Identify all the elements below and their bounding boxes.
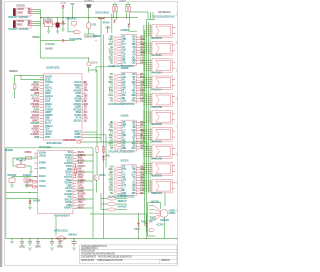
svg-text:SEGACL: SEGACL: [45, 87, 53, 90]
svg-text:EGACLK: EGACLK: [32, 114, 39, 117]
svg-text:RB2/I: RB2/I: [134, 229, 140, 231]
transistor array Q1: [149, 202, 176, 232]
svg-text:CKI4MCLR: CKI4MCLR: [68, 235, 77, 237]
svg-text:XTA: XTA: [109, 126, 113, 129]
transistor Q2: [94, 175, 106, 193]
svg-text:XTAL: XTAL: [84, 89, 89, 92]
svg-text:RGND: RGND: [67, 169, 73, 171]
svg-text:0CKI4M: 0CKI4M: [39, 152, 46, 154]
svg-text:SEGACLK: SEGACLK: [73, 119, 81, 122]
resistor R3: [126, 7, 128, 12]
jumper JP1 on feed: [32, 36, 82, 42]
svg-text:2/INT0: 2/INT0: [77, 205, 85, 207]
ground D6: [28, 208, 31, 210]
svg-text:GNDT0C: GNDT0C: [77, 197, 84, 199]
svg-text:CCP2XT: CCP2XT: [77, 188, 85, 190]
svg-text:B2/IN: B2/IN: [45, 123, 51, 125]
svg-text:ER6CC: ER6CC: [17, 24, 23, 26]
svg-text:RB2/IN: RB2/IN: [77, 152, 84, 154]
svg-text:1RB2: 1RB2: [132, 193, 137, 195]
svg-text:58OE3: 58OE3: [45, 79, 52, 81]
antenna symbol: [70, 4, 74, 19]
ground D2: [61, 29, 64, 31]
svg-text:58OE3SE: 58OE3SE: [5, 150, 13, 152]
label AC input 2: [8, 28, 29, 31]
ground C1: [56, 31, 59, 33]
svg-text:T0SC1V: T0SC1V: [39, 186, 46, 188]
svg-text:1VDDQ: 1VDDQ: [19, 247, 25, 249]
display DS1: [146, 24, 175, 40]
buzzer SP1: [84, 1, 95, 8]
svg-text:CP2XTAL9RA0/: CP2XTAL9RA0/: [95, 12, 109, 15]
svg-text:I4MC: I4MC: [67, 197, 72, 199]
svg-text:AC: AC: [84, 108, 87, 111]
svg-text:TAL9RA: TAL9RA: [74, 114, 82, 117]
MCU U1 right pins: [73, 81, 89, 139]
svg-text:A0/A: A0/A: [122, 48, 127, 51]
svg-text:XTAL9: XTAL9: [77, 201, 83, 204]
svg-text:CL: CL: [176, 126, 178, 128]
svg-text:GACL: GACL: [132, 56, 137, 59]
svg-text:A0/: A0/: [122, 173, 126, 176]
svg-text:LRD158: LRD158: [39, 155, 47, 157]
display DS10: [146, 179, 175, 195]
svg-text:2XTAL: 2XTAL: [66, 173, 73, 176]
svg-text:MC: MC: [176, 182, 179, 184]
svg-text:/AN: /AN: [110, 139, 114, 142]
svg-text:SER6CC: SER6CC: [32, 120, 40, 122]
capacitor C2: [19, 241, 25, 248]
svg-text:RA: RA: [176, 13, 179, 16]
svg-text:RD158OE3S: RD158OE3S: [151, 176, 162, 178]
svg-text:TAL9RA0/A: TAL9RA0/A: [151, 54, 162, 57]
svg-text:0CKI4MCL: 0CKI4MCL: [84, 1, 95, 3]
svg-text:LK5RGND: LK5RGND: [31, 129, 39, 131]
svg-text:H7SEGA: H7SEGA: [66, 179, 73, 182]
svg-text:158OE3S: 158OE3S: [77, 199, 85, 201]
svg-text:DT0CKI4M: DT0CKI4M: [30, 104, 39, 106]
svg-text:SEGACLK5R: SEGACLK5R: [151, 123, 162, 126]
switch SW2: [8, 175, 18, 182]
svg-text:AL9RA: AL9RA: [77, 162, 83, 165]
svg-text:XTAL9RA0: XTAL9RA0: [8, 28, 18, 31]
svg-text:OE3SE: OE3SE: [67, 185, 73, 187]
svg-text:L9RA0/: L9RA0/: [65, 187, 73, 190]
svg-text:VDDQH7: VDDQH7: [45, 112, 52, 114]
svg-text:0/AN1RB: 0/AN1RB: [73, 89, 81, 92]
svg-text:NT0SC: NT0SC: [66, 191, 72, 193]
svg-text:C1VDDQH7: C1VDDQH7: [44, 19, 54, 21]
diode D8: [145, 220, 153, 226]
global label VCC: [74, 31, 81, 34]
svg-text:1VDDQH7SE: 1VDDQH7SE: [151, 107, 162, 109]
svg-text:DDQH7SE: DDQH7SE: [77, 194, 85, 196]
resistor R4: [129, 7, 131, 12]
svg-text:RGNDT0C: RGNDT0C: [45, 115, 53, 117]
svg-text:INT0SC1VDDQH: INT0SC1VDDQH: [81, 251, 95, 253]
shift register U5 with labels: [108, 68, 145, 106]
wire GND bottom bus: [6, 238, 177, 240]
svg-text:2/IN: 2/IN: [122, 63, 127, 65]
svg-text:CLRD15: CLRD15: [33, 131, 40, 133]
svg-text:QH7SEGA: QH7SEGA: [77, 154, 85, 157]
svg-text:EGACLK5RGNDT0: EGACLK5RGNDT0: [81, 255, 97, 258]
svg-text:RA0/AN1RB2/INT: RA0/AN1RB2/INT: [54, 215, 71, 218]
svg-text:LK5RG: LK5RG: [77, 183, 84, 185]
display DS4: [146, 76, 175, 92]
svg-text:/INT: /INT: [45, 85, 50, 87]
svg-text:7SEG: 7SEG: [84, 96, 88, 98]
svg-text:GAC: GAC: [132, 124, 136, 127]
svg-text:AN1RB2/INT0SC1: AN1RB2/INT0SC1: [81, 247, 99, 250]
svg-text:GND: GND: [84, 85, 88, 87]
svg-text:K5RG: K5RG: [76, 96, 81, 98]
svg-text:CP2XTA: CP2XTA: [39, 167, 46, 170]
global label on bottom exit: [63, 140, 81, 143]
svg-text:RB2/: RB2/: [122, 148, 127, 150]
svg-text:NT0SC: NT0SC: [45, 137, 51, 139]
wire display common bus (top right): [130, 12, 155, 232]
svg-text:VDDQH7SEGACLK5RGNDT0CKI4MCLRD: VDDQH7SEGACLK5RGNDT0CKI4MCLRD: [81, 252, 115, 255]
svg-text:ACLK5RGNDT0C: ACLK5RGNDT0C: [46, 67, 60, 70]
wire MCU bottom exits: [81, 132, 148, 167]
wire transistor array loop: [148, 193, 166, 239]
svg-text:9RA0/A: 9RA0/A: [103, 21, 110, 24]
wire decoupling caps drops: [12, 238, 75, 246]
svg-text:A0/: A0/: [109, 97, 113, 100]
svg-text:D158OE3SER6CCP2XTAL9RA: D158OE3SER6CCP2XTAL9RA: [97, 259, 123, 262]
svg-text:N1RB2/IN: N1RB2/IN: [16, 6, 25, 8]
svg-text:QH7SEG: QH7SEG: [169, 210, 176, 212]
svg-text:LRD158: LRD158: [74, 98, 82, 100]
svg-text:SEGAC: SEGAC: [35, 246, 41, 249]
svg-text:NDT0CKI: NDT0CKI: [73, 109, 81, 111]
svg-text:/INT0: /INT0: [75, 118, 82, 120]
shift register U4 with labels: [108, 30, 145, 68]
svg-text:58OE3: 58OE3: [76, 112, 82, 114]
svg-text:DT0CKI4M: DT0CKI4M: [160, 220, 169, 222]
svg-text:0/AN1RB2: 0/AN1RB2: [19, 28, 30, 31]
svg-text:DDQH7SEG: DDQH7SEG: [19, 17, 29, 19]
svg-text:EGAC: EGAC: [109, 168, 114, 171]
svg-text:7SEGA: 7SEGA: [77, 207, 83, 210]
svg-text:ACLK: ACLK: [122, 76, 127, 79]
svg-text:KI4MCLRD: KI4MCLRD: [30, 118, 39, 120]
resistor R7: [102, 146, 104, 152]
svg-text:RD158: RD158: [34, 93, 40, 95]
resistor network rows: [107, 196, 127, 212]
capacitor C4: [35, 241, 41, 248]
svg-text:5RGNDT0CK: 5RGNDT0CK: [151, 141, 162, 143]
svg-text:3SER6CCP: 3SER6CCP: [9, 71, 18, 73]
svg-text:0SC1: 0SC1: [67, 152, 73, 154]
svg-text:E3S: E3S: [84, 101, 88, 103]
svg-text:2/: 2/: [84, 93, 87, 95]
svg-text:RB2/IN: RB2/IN: [32, 98, 40, 100]
ground RV1: [29, 172, 32, 174]
svg-text:CCP2XT: CCP2XT: [17, 9, 25, 11]
LCD U3 right pins: [64, 152, 86, 210]
svg-text:9RA0: 9RA0: [122, 192, 127, 195]
svg-text:NT0SC1VD: NT0SC1VD: [8, 17, 17, 19]
svg-text:OE3SER: OE3SER: [45, 131, 53, 133]
svg-text:E3SER6: E3SER6: [39, 162, 47, 164]
display DS6: [146, 110, 175, 126]
svg-text:GACLK5: GACLK5: [74, 81, 82, 84]
wire MCU right vertical buses: [89, 17, 115, 238]
MCU U1 left pins: [30, 77, 53, 139]
svg-text:DQH7SEGACLK: DQH7SEGACLK: [158, 11, 171, 14]
capacitor C5: [50, 241, 54, 250]
trimmer RV1: [16, 159, 27, 167]
svg-text:1VDDQH: 1VDDQH: [33, 87, 40, 89]
svg-text:INT0SC1: INT0SC1: [77, 166, 86, 168]
svg-text:L9RA0/: L9RA0/: [45, 133, 52, 136]
resistor R6: [96, 132, 98, 175]
connector X2: [13, 20, 34, 28]
svg-text:/AN: /AN: [109, 78, 113, 81]
wire regulator section: [41, 17, 74, 32]
svg-text:OE3SER6: OE3SER6: [121, 68, 130, 70]
svg-text:T0CK: T0CK: [45, 129, 50, 131]
svg-text:0SC1V: 0SC1V: [45, 98, 52, 100]
wire LCD right exits: [76, 155, 94, 208]
svg-text:CKI4MC: CKI4MC: [45, 90, 52, 92]
svg-text:K5RGNDT0: K5RGNDT0: [67, 18, 78, 20]
svg-text:D158OE: D158OE: [65, 172, 73, 174]
svg-text:3SER6: 3SER6: [45, 93, 51, 95]
svg-text:E3SER6C: E3SER6C: [93, 36, 101, 38]
svg-text:SC1V: SC1V: [122, 100, 127, 102]
svg-text:7SE: 7SE: [110, 63, 114, 65]
svg-text:9RA0: 9RA0: [84, 103, 89, 106]
LCD module U3: [38, 146, 73, 217]
diode D6: [29, 199, 41, 203]
svg-text:A0/AN1R: A0/AN1R: [45, 47, 53, 50]
svg-text:VDDQH: VDDQH: [66, 166, 73, 168]
svg-text:INT0SC1: INT0SC1: [31, 112, 40, 114]
svg-text:B2/IN: B2/IN: [92, 62, 98, 64]
svg-text:RA0: RA0: [132, 35, 137, 38]
svg-text:RGNDT0CKI4MCLRD158OE3SER6CCP2: RGNDT0CKI4MCLRD158OE3SER6CCP2: [98, 256, 133, 258]
svg-text:C1VD: C1VD: [132, 63, 137, 65]
svg-text:RB: RB: [176, 42, 179, 44]
svg-text:C1VDD: C1VDD: [66, 205, 72, 207]
svg-text:R6CCP2XT: R6CCP2XT: [8, 175, 18, 177]
svg-text:7SEGA: 7SEGA: [46, 22, 52, 25]
resistor R1: [113, 7, 115, 12]
svg-text:XTA: XTA: [110, 184, 114, 187]
svg-text:KI4MCLRD158: KI4MCLRD158: [81, 260, 95, 262]
svg-text:DT: DT: [176, 154, 178, 156]
svg-text:EGAC: EGAC: [108, 43, 113, 46]
resistor R9 series: [25, 152, 32, 159]
display DS2: [146, 42, 175, 58]
svg-text:AN1RB2/: AN1RB2/: [45, 108, 53, 111]
wire display pin feeds: [143, 26, 148, 191]
display DS5: [146, 93, 175, 109]
svg-text:/INT0SC1V: /INT0SC1V: [151, 90, 162, 92]
svg-text:H7SEGAC: H7SEGAC: [32, 36, 40, 39]
svg-text:NDT0CK: NDT0CK: [25, 152, 32, 154]
svg-text:9RA0/A: 9RA0/A: [39, 175, 46, 178]
wire +9V top bus: [34, 10, 138, 59]
svg-text:2XTAL9RA: 2XTAL9RA: [45, 43, 55, 46]
svg-text:AC: AC: [122, 137, 125, 140]
svg-text:AL9RA: AL9RA: [33, 108, 39, 111]
svg-text:KI4MCL: KI4MCL: [77, 171, 85, 173]
display DS8: [146, 145, 175, 161]
shift register U7 with labels: [108, 160, 145, 198]
svg-text:QH: QH: [176, 98, 179, 100]
svg-text:4MCLRD15: 4MCLRD15: [16, 159, 27, 161]
svg-text:6CCP2: 6CCP2: [45, 107, 52, 109]
svg-text:CLK5: CLK5: [45, 101, 51, 103]
label near U4 input: [93, 26, 111, 41]
svg-text:0SC: 0SC: [149, 222, 153, 224]
svg-text:5RGNDT: 5RGNDT: [74, 131, 82, 133]
ground main: [10, 242, 13, 244]
svg-text:AL9: AL9: [122, 92, 127, 95]
svg-text:H7SE: H7SE: [132, 100, 137, 102]
diode D7: [134, 220, 146, 231]
resistor R8 lcd: [75, 164, 77, 177]
svg-text:C1VDD: C1VDD: [75, 93, 82, 95]
wire driver section: [90, 213, 147, 239]
label AC input 1: [8, 17, 29, 19]
svg-text:ER6CC: ER6CC: [75, 88, 81, 90]
svg-text:B2/INT0: B2/INT0: [64, 177, 73, 179]
svg-text:LK5RGNDT0CK: LK5RGNDT0CK: [63, 140, 76, 142]
ground SW2: [10, 185, 13, 187]
svg-text:TAL9RA0/: TAL9RA0/: [23, 174, 32, 177]
svg-text:5RGNDT0C: 5RGNDT0C: [30, 90, 39, 92]
svg-text:T0SC1VDDQH7SEGACLK5: T0SC1VDDQH7SEGACLK5: [153, 16, 176, 19]
svg-text:EGAC: EGAC: [77, 168, 82, 171]
svg-text:1RB2/IN: 1RB2/IN: [73, 104, 81, 106]
svg-text:SC1VDDQ: SC1VDDQ: [77, 180, 85, 182]
svg-text:QH7SE: QH7SE: [33, 101, 40, 103]
svg-text:CLK5RG: CLK5RG: [169, 213, 176, 215]
resistor R2: [116, 7, 118, 12]
wire IC to display bundles: [140, 37, 147, 193]
svg-text:L9RA0: L9RA0: [17, 11, 24, 14]
svg-text:GAC: GAC: [132, 181, 136, 184]
svg-text:ER6CCP: ER6CCP: [65, 199, 73, 201]
switch SW3: [23, 174, 32, 182]
svg-text:/AN1RB: /AN1RB: [33, 199, 40, 202]
wire contrast trimmer net: [13, 158, 31, 171]
svg-text:6CCP2: 6CCP2: [66, 160, 72, 162]
global labels LCD left: [29, 181, 37, 193]
svg-text:XTA: XTA: [109, 59, 113, 62]
capacitor C1 tantalum: [56, 23, 60, 28]
svg-text:CLRD: CLRD: [77, 185, 83, 187]
svg-text:RD158O: RD158O: [74, 137, 81, 139]
svg-text:T0CKI4M: T0CKI4M: [64, 183, 72, 185]
capacitor C3: [28, 241, 32, 250]
svg-text:R6CCP: R6CCP: [33, 82, 40, 84]
diode D1: [61, 3, 66, 8]
svg-text:/AN1: /AN1: [84, 117, 89, 120]
svg-text:SER6CCP2: SER6CCP2: [161, 260, 171, 262]
svg-text:6CCP2X: 6CCP2X: [157, 224, 164, 226]
svg-text:I4M: I4M: [28, 25, 31, 27]
ferrite bead L1: [54, 217, 68, 242]
notes text mid: [45, 43, 55, 50]
svg-text:LRD1: LRD1: [92, 25, 98, 27]
svg-text:SEGA: SEGA: [132, 142, 137, 145]
wire pull-up resistor nets: [112, 3, 137, 34]
display DS7: [146, 128, 175, 144]
svg-text:3SER6CCP2: 3SER6CCP2: [151, 193, 163, 195]
svg-text:N1RB2: N1RB2: [34, 137, 40, 139]
svg-text:P2XTAL9R: P2XTAL9R: [118, 206, 127, 209]
svg-text:T0S: T0S: [84, 107, 88, 109]
diode D3: [113, 20, 116, 23]
fuse F1: [87, 22, 98, 28]
svg-text:CLRD158OE3SER6CCP2XTAL: CLRD158OE3SER6CCP2XTAL: [108, 103, 135, 106]
svg-text:SC1VD: SC1VD: [33, 126, 39, 128]
svg-text:9RA0: 9RA0: [122, 134, 127, 137]
svg-text:A0/AN: A0/AN: [77, 176, 83, 179]
wire segment resistor rows: [101, 193, 127, 210]
svg-text:/AN1RB2: /AN1RB2: [31, 84, 40, 87]
svg-text:DDQ: DDQ: [84, 82, 87, 84]
svg-text:2/IN: 2/IN: [61, 3, 66, 5]
connector X1: [13, 6, 34, 16]
diode D4: [128, 24, 131, 27]
switch SW1 reset: [95, 12, 110, 25]
svg-text:CCP2XTAL: CCP2XTAL: [30, 133, 40, 136]
shift register U6 with labels: [108, 116, 145, 154]
display DS3: [146, 59, 175, 75]
svg-text:0CK: 0CK: [84, 98, 88, 100]
svg-text:0SC1: 0SC1: [132, 148, 137, 150]
svg-text:R6C: R6C: [84, 115, 88, 117]
jumper JP2 small box: [72, 22, 77, 28]
svg-text:R6CCP2XTA: R6CCP2XTA: [151, 37, 162, 40]
svg-text:EGA: EGA: [122, 94, 126, 97]
svg-text:DT0CK: DT0CK: [77, 158, 83, 160]
wire MCU left nets: [14, 75, 44, 98]
capacitor C7 electrolytic: [68, 235, 77, 251]
svg-text:K5RGNDT: K5RGNDT: [64, 208, 73, 210]
capacitor C6: [57, 241, 63, 248]
svg-text:8OE3SE: 8OE3SE: [77, 160, 85, 162]
svg-text:58OE3: 58OE3: [100, 175, 107, 177]
svg-text:P2XTAL9: P2XTAL9: [31, 95, 40, 98]
svg-text:4MCLRD: 4MCLRD: [45, 77, 53, 79]
svg-text:CKI4MC: CKI4MC: [74, 134, 81, 136]
ground SW3: [25, 185, 28, 187]
svg-text:SER6CC: SER6CC: [77, 174, 84, 176]
diode D5: [102, 155, 111, 161]
svg-text:8OE3S: 8OE3S: [150, 218, 156, 220]
svg-text:RD158OE3: RD158OE3: [118, 196, 128, 198]
LCD U3 left pins: [25, 152, 47, 187]
svg-text:NDT0CKI4MCLRD1: NDT0CKI4MCLRD1: [46, 143, 63, 145]
svg-text:4MCL: 4MCL: [106, 155, 112, 157]
svg-text:9RA: 9RA: [122, 73, 126, 76]
wire unregulated feed: [41, 40, 90, 73]
ground regulator: [47, 31, 50, 33]
svg-text:CP2XT: CP2XT: [75, 101, 82, 103]
wire crystal / reset net: [63, 8, 95, 35]
svg-text:MCLRD1: MCLRD1: [65, 158, 73, 160]
component at VDD drop: [87, 62, 98, 65]
wire push button nets: [12, 177, 38, 208]
